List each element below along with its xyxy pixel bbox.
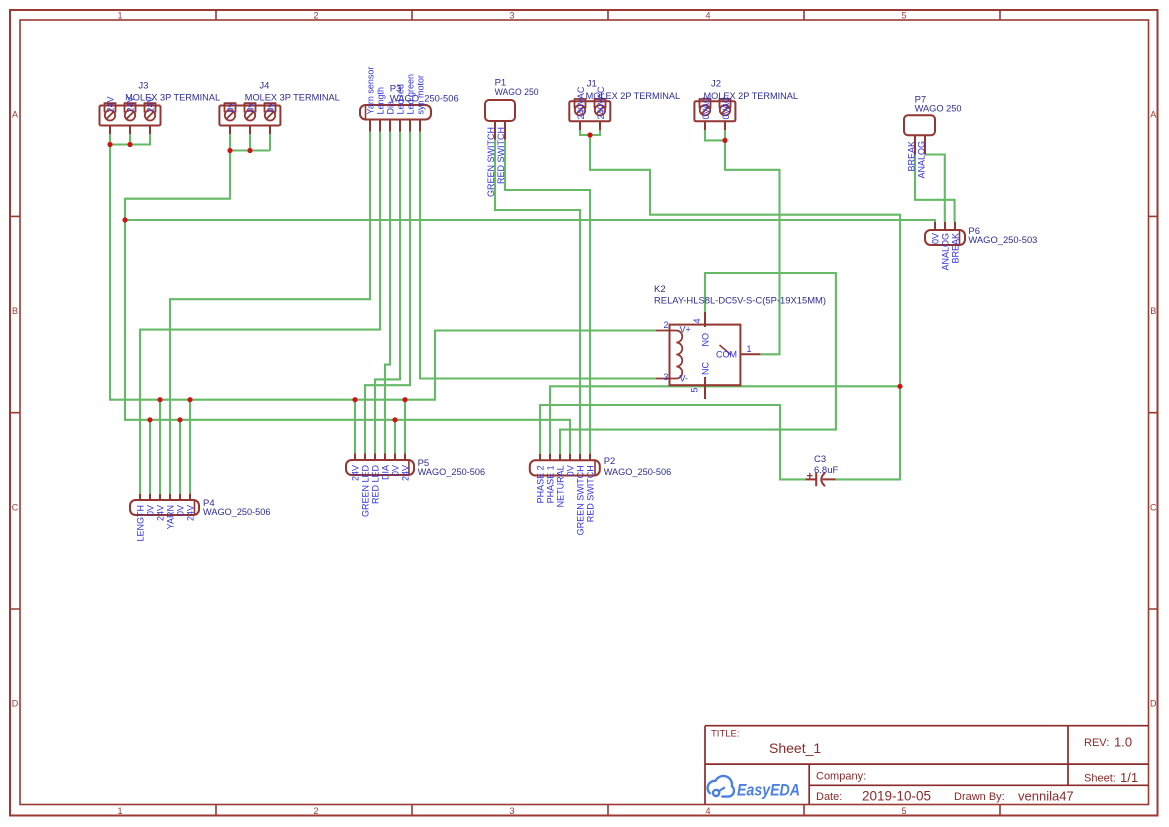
- svg-text:V+: V+: [680, 325, 691, 335]
- svg-text:V-: V-: [680, 374, 689, 384]
- wire DIA net P5 to P3: [385, 132, 390, 454]
- wire RED LED net P5 to P3: [375, 132, 400, 454]
- svg-text:WAGO_250-503: WAGO_250-503: [968, 235, 1037, 246]
- svg-text:Sheet:: Sheet:: [1084, 773, 1116, 785]
- svg-text:BREAK: BREAK: [907, 141, 917, 172]
- svg-text:D: D: [12, 698, 19, 708]
- svg-text:B: B: [1150, 306, 1156, 316]
- wire 0V top horizontal to P6 pin 0V: [125, 220, 935, 222]
- svg-text:0V: 0V: [931, 233, 941, 244]
- svg-text:NETURAL: NETURAL: [556, 465, 566, 507]
- junction (125,220): [122, 217, 127, 222]
- P7 pin labels: [907, 141, 927, 179]
- wire 0VAC net J2 to relay COM: [725, 140, 780, 354]
- wire J2 pins common bus: [705, 130, 725, 140]
- svg-text:GREEN SWITCH: GREEN SWITCH: [486, 127, 496, 197]
- svg-text:COM: COM: [716, 350, 737, 360]
- label J2: [704, 79, 799, 102]
- svg-text:1: 1: [117, 806, 122, 816]
- wire 0V rail stubs to P4 and P5: [150, 420, 395, 494]
- label J3: [125, 81, 220, 104]
- J2 pin labels 0VAC: [701, 96, 731, 119]
- svg-text:WAGO_250-506: WAGO_250-506: [604, 467, 672, 478]
- K2 pin names: [680, 325, 738, 384]
- junction (355,399.7): [352, 397, 357, 402]
- J3 pin labels 24V: [105, 96, 155, 112]
- svg-text:C: C: [1150, 502, 1157, 512]
- svg-text:PHASE 2: PHASE 2: [536, 465, 546, 503]
- junction (180,419.8): [177, 417, 182, 422]
- wire PHASE 2 net P2 to C3 plus: [540, 405, 806, 479]
- capacitor C3: [806, 473, 836, 487]
- P3 pin labels: [366, 67, 426, 115]
- svg-text:Drawn By:: Drawn By:: [954, 791, 1005, 803]
- wire 24V rail stubs to P4 and P5: [160, 400, 405, 494]
- svg-text:24V: 24V: [351, 465, 361, 481]
- svg-text:MOLEX 3P TERMINAL: MOLEX 3P TERMINAL: [245, 93, 340, 104]
- svg-text:2: 2: [313, 10, 318, 20]
- svg-text:GREEN SWITCH: GREEN SWITCH: [576, 465, 586, 535]
- label P7: [915, 95, 962, 115]
- junction (160,399.7): [157, 397, 162, 402]
- wire 24V net: J3 down, horizontal rail, up to relay V+: [110, 145, 656, 400]
- connector P5 WAGO_250-506: [346, 454, 414, 476]
- svg-text:A: A: [12, 110, 18, 120]
- svg-text:Sheet_1: Sheet_1: [769, 740, 821, 756]
- ruler column numbers 1-5: [117, 10, 906, 816]
- svg-text:A: A: [1150, 110, 1156, 120]
- connector P2 WAGO_250-506: [530, 454, 600, 476]
- svg-text:1/1: 1/1: [1120, 770, 1138, 785]
- connector J1 MOLEX 2P TERMINAL: [569, 99, 610, 130]
- svg-text:0v: 0v: [225, 102, 235, 112]
- P4 pin labels: [136, 505, 196, 542]
- wire 240VAC net J1 to C3 via junction: [590, 135, 900, 479]
- K2 pin numbers: [663, 318, 751, 392]
- wire BREAK net P7 to P6: [915, 155, 955, 223]
- svg-text:24V: 24V: [105, 96, 115, 112]
- svg-text:4: 4: [692, 318, 702, 323]
- wire J4 pins common bus: [230, 134, 270, 151]
- P6 pin labels: [931, 233, 961, 271]
- svg-text:REV:: REV:: [1084, 737, 1109, 749]
- connector P7 WAGO 250: [904, 115, 935, 154]
- svg-text:0V: 0V: [391, 465, 401, 476]
- junction (590,135): [587, 132, 592, 137]
- svg-text:3: 3: [663, 372, 668, 382]
- wire ANALOG net P7 to P6: [925, 155, 945, 223]
- svg-text:P2: P2: [604, 456, 616, 467]
- svg-text:1: 1: [746, 344, 751, 354]
- svg-text:3: 3: [509, 806, 514, 816]
- svg-text:D: D: [1150, 698, 1157, 708]
- svg-text:ANALOG: ANALOG: [941, 233, 951, 271]
- svg-text:Company:: Company:: [816, 771, 866, 783]
- svg-text:YARN: YARN: [166, 505, 176, 529]
- connector P6 WAGO_250-503: [925, 222, 965, 245]
- svg-text:C3: C3: [814, 454, 826, 465]
- label P4: [203, 498, 271, 518]
- svg-text:5: 5: [901, 10, 906, 20]
- wire GREEN LED net P5 to P3: [365, 132, 410, 454]
- svg-text:Date:: Date:: [816, 791, 842, 803]
- svg-text:Yarn sensor: Yarn sensor: [366, 67, 376, 115]
- svg-text:BREAK: BREAK: [951, 233, 961, 264]
- svg-text:J1: J1: [587, 79, 597, 90]
- connector P4 WAGO_250-506: [130, 494, 199, 515]
- svg-text:4: 4: [705, 806, 710, 816]
- svg-text:LENGTH: LENGTH: [136, 505, 146, 542]
- svg-text:1.0: 1.0: [1114, 735, 1132, 750]
- P2 pin labels: [536, 465, 596, 535]
- svg-text:RELAY-HLS8L-DC5V-S-C(5P-19X15M: RELAY-HLS8L-DC5V-S-C(5P-19X15MM): [654, 296, 826, 307]
- svg-text:0v: 0v: [245, 102, 255, 112]
- svg-text:PHASE 1: PHASE 1: [546, 465, 556, 503]
- ruler row letters A-D: [12, 110, 1157, 709]
- title block grid: [705, 726, 1149, 805]
- wire YARN net P4 to P3: [170, 132, 370, 495]
- svg-text:WAGO_250-506: WAGO_250-506: [390, 94, 459, 105]
- svg-text:5: 5: [901, 806, 906, 816]
- svg-text:C: C: [12, 502, 19, 512]
- svg-text:5: 5: [690, 387, 700, 392]
- wire syn motor net P3 to relay V-: [420, 132, 656, 379]
- svg-text:0v: 0v: [265, 102, 275, 112]
- wire relay NO to P2 NETURAL net: [560, 273, 836, 454]
- svg-text:MOLEX 2P TERMINAL: MOLEX 2P TERMINAL: [586, 91, 681, 102]
- label P5: [418, 458, 486, 478]
- svg-text:K2: K2: [654, 284, 666, 295]
- junction (190,399.7): [187, 397, 192, 402]
- junction (110,144.5): [107, 142, 112, 147]
- svg-text:24V: 24V: [401, 465, 411, 481]
- junction (130,144.5): [127, 142, 132, 147]
- junction (230,150.5): [227, 148, 232, 153]
- svg-text:WAGO 250: WAGO 250: [915, 104, 962, 115]
- svg-text:WAGO_250-506: WAGO_250-506: [418, 467, 486, 478]
- svg-text:2019-10-05: 2019-10-05: [862, 789, 931, 804]
- svg-text:J4: J4: [259, 81, 269, 92]
- svg-text:ANALOG: ANALOG: [917, 141, 927, 179]
- svg-text:240VAC: 240VAC: [576, 86, 586, 119]
- label P1: [495, 78, 539, 99]
- svg-text:MOLEX 2P TERMINAL: MOLEX 2P TERMINAL: [704, 91, 799, 102]
- svg-text:vennila47: vennila47: [1018, 789, 1074, 804]
- svg-text:24V: 24V: [156, 505, 166, 521]
- wire PHASE 1 net P2 to junction at C3/240VAC: [550, 386, 900, 454]
- svg-text:WAGO 250: WAGO 250: [495, 87, 539, 98]
- svg-text:6.8uF: 6.8uF: [814, 465, 838, 476]
- connector P3 WAGO_250-506: [360, 105, 431, 132]
- connector J3 MOLEX 3P TERMINAL: [100, 103, 161, 134]
- label K2: [654, 284, 826, 307]
- J1 pin labels 240VAC: [576, 86, 606, 119]
- P5 pin labels: [351, 465, 411, 518]
- wire J3 pins common bus: [110, 134, 150, 145]
- svg-text:J2: J2: [711, 79, 721, 90]
- svg-text:0V: 0V: [176, 505, 186, 516]
- svg-text:1: 1: [117, 10, 122, 20]
- junction (250,150.5): [247, 148, 252, 153]
- junction (725,140.4): [722, 138, 727, 143]
- junction (900,386.3): [897, 384, 902, 389]
- svg-text:RED LED: RED LED: [371, 465, 381, 505]
- svg-text:0V: 0V: [146, 505, 156, 516]
- relay K2 body: [656, 312, 760, 399]
- wire GREEN SWITCH net P1 to P2: [495, 140, 580, 455]
- wire LENGTH net P4 to P3: [140, 132, 380, 495]
- svg-text:4: 4: [705, 10, 710, 20]
- label J1: [586, 79, 681, 102]
- svg-text:DIA: DIA: [381, 465, 391, 480]
- connector J4 MOLEX 3P TERMINAL: [219, 103, 280, 134]
- svg-text:0V: 0V: [566, 465, 576, 476]
- EasyEDA logo: [708, 776, 800, 800]
- connector J2 MOLEX 2P TERMINAL: [694, 99, 735, 130]
- connector P1 WAGO 250: [485, 100, 515, 140]
- svg-text:MOLEX 3P TERMINAL: MOLEX 3P TERMINAL: [125, 93, 220, 104]
- junction (150,419.8): [147, 417, 152, 422]
- svg-text:3: 3: [509, 10, 514, 20]
- P1 pin labels: [486, 127, 506, 197]
- J4 pin labels 0v: [225, 102, 275, 112]
- svg-text:TITLE:: TITLE:: [711, 729, 740, 740]
- label J4: [245, 81, 340, 104]
- label P2: [604, 456, 672, 478]
- label P6: [968, 226, 1037, 246]
- svg-text:GREEN LED: GREEN LED: [361, 465, 371, 518]
- svg-text:WAGO_250-506: WAGO_250-506: [203, 507, 271, 518]
- svg-text:Length: Length: [376, 87, 386, 115]
- wire 0V net: J4 down-left, vertical, horizontal rail to P2: [125, 151, 570, 455]
- wire J1 pins common bus: [580, 130, 600, 135]
- svg-text:NC: NC: [701, 362, 711, 375]
- label P3: [390, 84, 459, 105]
- title block texts: [711, 729, 1138, 804]
- wire RED SWITCH net P1 to P2: [505, 140, 590, 455]
- svg-text:24V: 24V: [186, 505, 196, 521]
- svg-text:NO: NO: [701, 333, 711, 347]
- svg-text:B: B: [12, 306, 18, 316]
- svg-text:2: 2: [313, 806, 318, 816]
- junction (395,419.8): [392, 417, 397, 422]
- svg-text:2: 2: [663, 320, 668, 330]
- svg-text:RED SWITCH: RED SWITCH: [496, 127, 506, 184]
- svg-text:RED SWITCH: RED SWITCH: [586, 465, 596, 522]
- svg-text:EasyEDA: EasyEDA: [737, 781, 800, 800]
- svg-text:J3: J3: [138, 81, 148, 92]
- label C3 6.8uF: [814, 454, 838, 476]
- junction (405,399.7): [402, 397, 407, 402]
